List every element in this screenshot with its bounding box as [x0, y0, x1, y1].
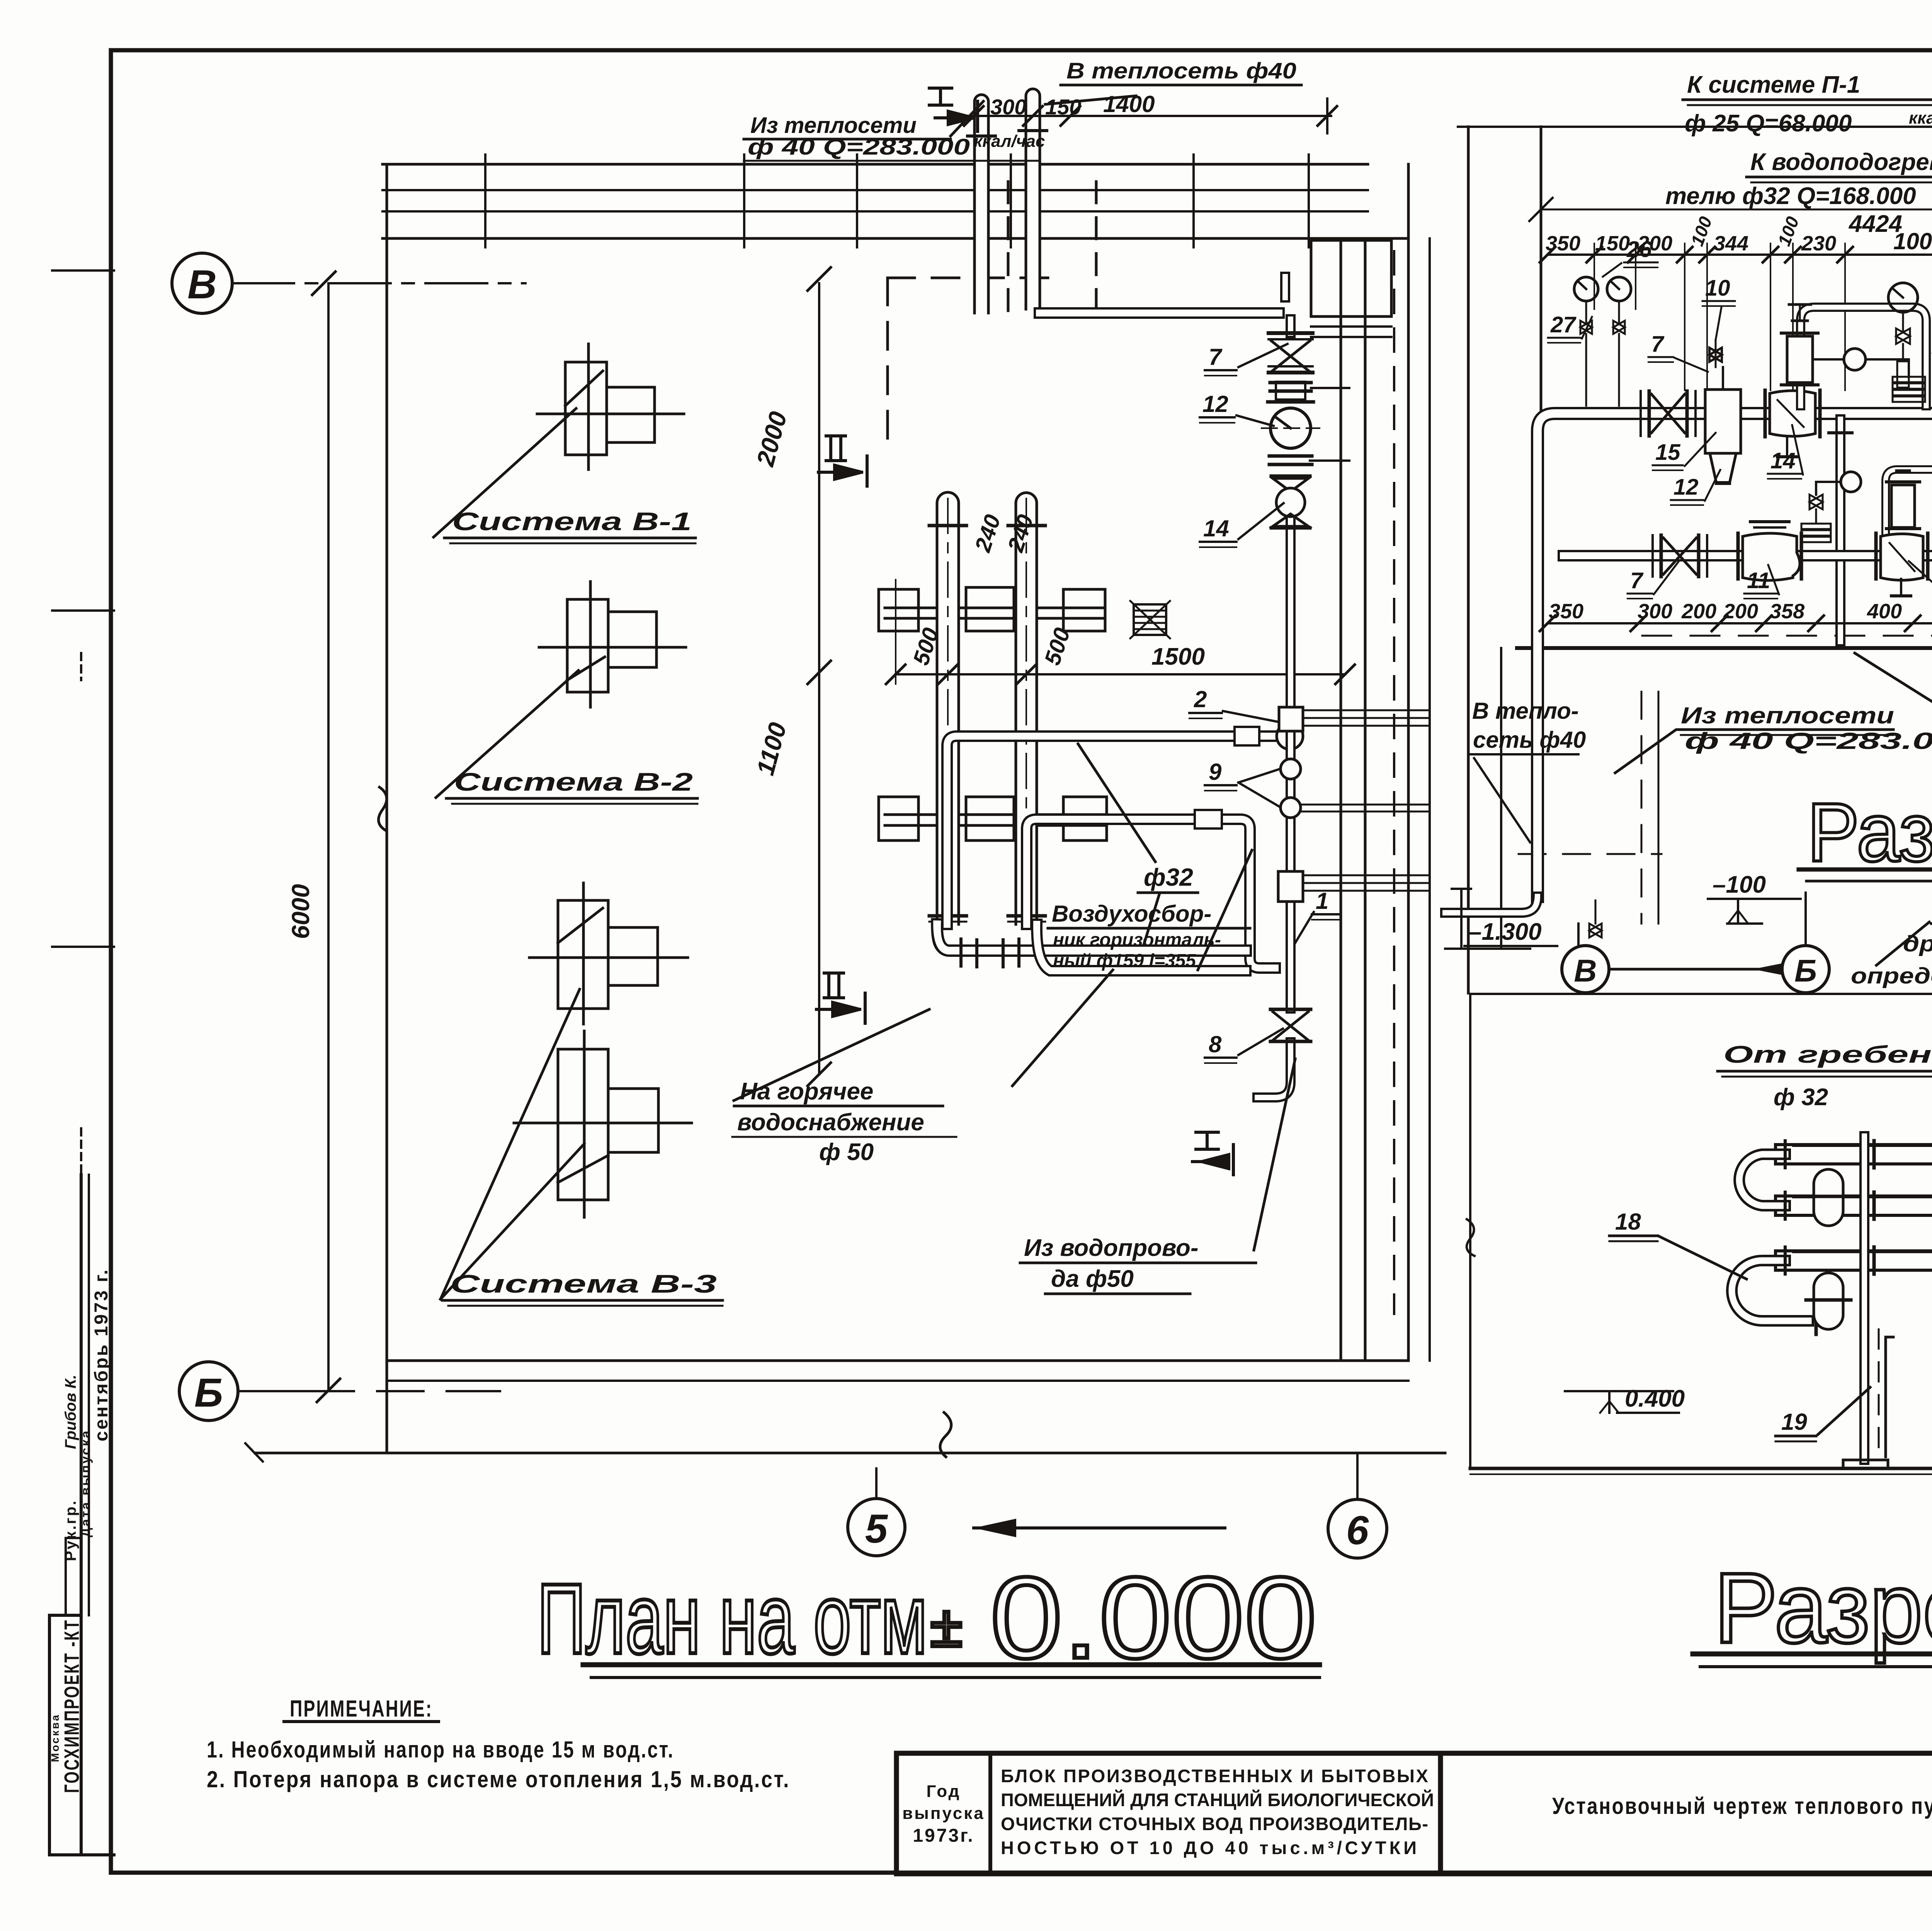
cross 13: [1876, 533, 1928, 596]
svg-text:15: 15: [1655, 440, 1680, 465]
svg-text:2000: 2000: [751, 408, 793, 469]
svg-text:ф32: ф32: [1144, 863, 1193, 891]
boundary top line: [1470, 993, 1932, 995]
svg-text:Из теплосети: Из теплосети: [1681, 703, 1894, 728]
label 18: [1615, 1209, 1641, 1235]
svg-text:12: 12: [1673, 475, 1699, 500]
view direction arrow: [974, 1526, 1225, 1529]
title block divider description: [1438, 1753, 1443, 1874]
plan top wall line 3: [383, 210, 1368, 213]
section outer left boundary: [1467, 127, 1470, 993]
svg-text:телю ф32 Q=168.000: телю ф32 Q=168.000: [1665, 183, 1916, 209]
svg-text:Грибов К.: Грибов К.: [62, 1375, 79, 1449]
svg-text:ник горизонталь-: ник горизонталь-: [1053, 930, 1221, 950]
svg-text:дренажа трубопровода: дренажа трубопровода: [1903, 931, 1932, 956]
main upper pipe: [1537, 413, 1932, 897]
center riser 2: [1016, 493, 1037, 924]
svg-text:5: 5: [865, 1506, 888, 1552]
basement wall: [1500, 648, 1502, 947]
svg-text:150: 150: [1595, 232, 1630, 255]
section callout labels left: [1550, 237, 1932, 627]
level -100: [1713, 871, 1766, 898]
dashed room boundary left: [886, 278, 889, 448]
title block outline: [896, 1753, 1932, 1874]
dashed line near risers 1: [1007, 182, 1010, 325]
fitting 2 coupling: [1279, 707, 1430, 731]
svg-text:7: 7: [1651, 332, 1665, 357]
feed pipe from risers: [1039, 307, 1279, 319]
svg-text:100: 100: [1687, 214, 1716, 248]
corridor wall left: [1340, 240, 1342, 1361]
svg-text:26: 26: [1626, 237, 1652, 262]
svg-text:В теплосеть ф40: В теплосеть ф40: [1066, 58, 1296, 83]
bottom grid circle 5: [848, 1454, 1387, 1558]
svg-text:ПОМЕЩЕНИЙ ДЛЯ СТАНЦИЙ БИОЛОГИЧ: ПОМЕЩЕНИЙ ДЛЯ СТАНЦИЙ БИОЛОГИЧЕСКОЙ: [1001, 1790, 1435, 1810]
vertical dim 2000/1100 line: [818, 283, 820, 1074]
P1 end circle fitting: [1277, 723, 1303, 749]
dirt trap 15: [1705, 367, 1741, 483]
tube row 2: [1785, 1194, 1932, 1217]
svg-text:ф 25 Q=68.000: ф 25 Q=68.000: [1685, 110, 1852, 137]
flange ticks rows: [1864, 1141, 1867, 1168]
grid axis line B bottom: [238, 1390, 500, 1392]
svg-text:1100: 1100: [751, 720, 792, 778]
svg-text:1: 1: [1316, 888, 1328, 914]
svg-text:200: 200: [1681, 600, 1716, 623]
svg-text:На горячее: На горячее: [740, 1078, 873, 1105]
svg-text:1400: 1400: [1103, 91, 1155, 117]
svg-text:344: 344: [1714, 232, 1748, 255]
svg-text:В: В: [187, 262, 217, 307]
top dim line 300/150/1400: [954, 115, 1331, 117]
teploset pipes below floor: [1445, 897, 1602, 937]
valve 8 (plan): [1270, 1009, 1311, 1041]
svg-text:18: 18: [1615, 1209, 1641, 1235]
column rect top right: [1311, 240, 1391, 316]
svg-text:сеть ф40: сеть ф40: [1473, 727, 1586, 753]
svg-text:ф 50: ф 50: [819, 1139, 874, 1165]
bottom line left tick: [245, 1443, 263, 1461]
svg-text:сентябрь 1973 г.: сентябрь 1973 г.: [91, 1268, 112, 1441]
svg-text:11: 11: [1747, 568, 1770, 593]
side stub at 1000: [1311, 387, 1349, 389]
svg-text:БЛОК ПРОИЗВОДСТВЕННЫХ И БЫТОВЫ: БЛОК ПРОИЗВОДСТВЕННЫХ И БЫТОВЫХ: [1001, 1766, 1430, 1786]
svg-text:–1.300: –1.300: [1468, 919, 1542, 945]
label system V-2: [454, 767, 693, 796]
svg-text:230: 230: [1801, 232, 1836, 255]
plan top wall line 1: [383, 163, 1368, 166]
svg-text:Б: Б: [194, 1370, 223, 1415]
svg-text:да ф50: да ф50: [1051, 1266, 1134, 1292]
svg-text:Москва: Москва: [49, 1713, 61, 1762]
title block divider year: [988, 1753, 992, 1874]
fitting 1 coupling: [1278, 871, 1430, 902]
corridor wall right: [1364, 240, 1367, 1361]
vertical dim 6000 line: [327, 283, 330, 1390]
fitting 9 circles: [1281, 759, 1430, 818]
svg-text:12: 12: [1202, 391, 1228, 417]
system V-3b plan symbol: [514, 1031, 692, 1217]
dashed room boundary top: [888, 277, 1053, 279]
svg-text:Б: Б: [1794, 953, 1817, 988]
plan bottom wall line 2: [387, 1380, 1408, 1382]
svg-text:Система В-3: Система В-3: [450, 1269, 717, 1298]
big title: plan: [537, 1553, 1320, 1683]
dim labels upper: [1546, 214, 1932, 255]
plan right wall: [1407, 164, 1410, 1361]
svg-text:350: 350: [1546, 232, 1580, 255]
P1 coupling: [1235, 727, 1259, 745]
break mark left: [1467, 1219, 1475, 1256]
svg-text:8: 8: [1209, 1031, 1222, 1057]
level -1300: [1468, 919, 1542, 945]
wall tick 4: [1192, 155, 1195, 247]
svg-text:400: 400: [1867, 600, 1902, 623]
label 19: [1781, 1409, 1807, 1435]
svg-text:1973г.: 1973г.: [913, 1826, 974, 1846]
main vertical pipe runs: [1286, 319, 1296, 333]
support posts: [1843, 1136, 1932, 1468]
wall bracket left upper: [879, 587, 1107, 840]
gauge 12 (plan): [1262, 408, 1320, 448]
svg-text:От гребенки: От гребенки: [1723, 1041, 1932, 1068]
dashed line above floor: [1642, 635, 1932, 637]
system V-3a plan symbol: [529, 883, 688, 1024]
svg-text:ф 32: ф 32: [1774, 1084, 1828, 1111]
svg-text:27: 27: [1550, 312, 1577, 337]
wall tick 6: [484, 155, 486, 247]
valve 7 (plan): [1269, 333, 1313, 373]
upper loop circuit: [1781, 305, 1926, 406]
notes block: [207, 1696, 790, 1792]
svg-text:–100: –100: [1713, 871, 1766, 898]
plan top wall line 2: [383, 189, 1368, 191]
inlet valve on main: [1641, 391, 1696, 436]
svg-text:Разрез: Разрез: [1807, 786, 1932, 879]
tube row 3: [1785, 1249, 1932, 1272]
svg-text:Дата выпуска: Дата выпуска: [78, 1429, 93, 1537]
wall tick 2: [856, 155, 858, 247]
label v teploset (section): [1472, 698, 1586, 753]
lower pipe run: [1563, 550, 1932, 561]
svg-text:ПРИМЕЧАНИЕ:: ПРИМЕЧАНИЕ:: [290, 1696, 433, 1722]
svg-text:К системе П-1: К системе П-1: [1687, 71, 1860, 98]
drain valve below: [1595, 900, 1597, 924]
svg-text:1500: 1500: [1151, 643, 1205, 670]
label iz teploseti: [748, 113, 1045, 160]
dim ticks: [1540, 247, 1555, 262]
label iz teploseti (section): [1681, 703, 1932, 754]
section mark II bottom: [816, 973, 865, 1023]
label iz vodoprovoda (plan): [1024, 1235, 1198, 1292]
weight stack: [1908, 359, 1910, 377]
valve 7 lower: [1653, 535, 1707, 577]
level mark 0.400: [1625, 1385, 1685, 1412]
gauge 26 center: [1888, 283, 1918, 388]
svg-text:14: 14: [1770, 448, 1796, 473]
hatched drain square: [1130, 601, 1170, 638]
callout 9 plan: [1209, 759, 1222, 785]
upper dimension chain: [1540, 243, 1932, 648]
stamp table lines: [48, 1615, 51, 1855]
bottom line break mark: [940, 1412, 951, 1457]
svg-text:4424: 4424: [1848, 211, 1902, 237]
lower dimension chain: [1540, 616, 1932, 631]
svg-text:ккал/час: ккал/час: [974, 132, 1045, 151]
svg-text:Установочный чертеж теплового: Установочный чертеж теплового пункта: [1552, 1793, 1932, 1819]
leader v teploset: [1045, 96, 1136, 104]
grid circle B top: [172, 253, 831, 1421]
svg-text:9: 9: [1209, 759, 1222, 785]
bottom grid circle 6: [1328, 1499, 1387, 1558]
section mark I bottom: [1192, 1132, 1233, 1175]
svg-text:2. Потеря напора в системе ото: 2. Потеря напора в системе отопления 1,5…: [207, 1766, 790, 1792]
drop leg to floor: [1829, 419, 1852, 641]
label ot grebenki: [1723, 1041, 1932, 1111]
svg-text:Система В-2: Система В-2: [454, 767, 693, 796]
svg-text:10: 10: [1705, 276, 1730, 301]
section mark II top: [818, 436, 867, 486]
regulator on loop: [1787, 336, 1813, 383]
svg-text:В: В: [1574, 953, 1597, 988]
plan center risers pair: [929, 492, 1045, 927]
tube row 1: [1785, 1143, 1932, 1165]
corridor dashed axis: [1393, 251, 1395, 1314]
svg-text:Воздухосбор-: Воздухосбор-: [1052, 901, 1211, 927]
svg-text:Из водопрово-: Из водопрово-: [1024, 1235, 1198, 1261]
svg-text:ф 40 Q=283.000: ф 40 Q=283.000: [1685, 728, 1932, 754]
svg-text:350: 350: [1549, 600, 1583, 623]
leader iz teploseti: [951, 101, 983, 136]
big title: section I-I (middle right): [1799, 786, 1932, 881]
svg-text:1. Необходимый напор на вводе: 1. Необходимый напор на вводе 15 м вод.с…: [207, 1737, 674, 1763]
callout 12 plan: [1202, 391, 1228, 417]
svg-text:7: 7: [1209, 344, 1223, 370]
air collector bottom pipes: [937, 924, 1246, 971]
left small gauges pair: [1574, 277, 1631, 406]
svg-text:14: 14: [1203, 516, 1229, 541]
callout 2 plan: [1194, 686, 1207, 712]
label system V-3: [450, 1269, 717, 1298]
svg-text:240: 240: [970, 512, 1005, 555]
center riser 1: [937, 492, 959, 924]
svg-text:0.400: 0.400: [1625, 1385, 1685, 1412]
valve 14 (plan, back pressure): [1271, 476, 1310, 528]
section line B-B circles: [1562, 893, 1829, 993]
leader V-1: [434, 408, 576, 537]
fold mark ticks: [52, 269, 114, 272]
callout 14 plan: [1203, 516, 1229, 541]
flanges below gauge: [1269, 456, 1349, 464]
P2 coupling: [1195, 810, 1222, 829]
svg-text:ГОСХИМПРОЕКТ -КТ: ГОСХИМПРОЕКТ -КТ: [60, 1619, 83, 1793]
cross fitting 14: [1765, 390, 1820, 457]
top pipe labels: [1665, 71, 1932, 291]
plan left wall: [386, 164, 388, 1453]
riser pipe 1 (iz teploseti): [975, 95, 988, 313]
svg-text:6000: 6000: [287, 884, 315, 939]
grid axis line B: [232, 282, 526, 284]
lower loop circuit: [1801, 470, 1932, 556]
svg-text:Год: Год: [927, 1782, 961, 1801]
svg-text:Система В-1: Система В-1: [452, 507, 692, 536]
system V-1 plan symbol: [537, 344, 684, 470]
riser pipe 2 (v teploset): [1026, 89, 1040, 309]
dim 240 240 labels: [908, 512, 1205, 670]
impulse line + ball: [1813, 358, 1909, 361]
tee 11: [1738, 522, 1801, 580]
wall bracket left lower: [879, 797, 918, 840]
plan bottom outer line: [255, 1452, 1445, 1455]
flange stack below valve7: [1268, 382, 1349, 402]
grid circle B bottom: [179, 1362, 238, 1421]
wall tick 3: [1010, 155, 1012, 247]
svg-text:К водоподогрева-: К водоподогрева-: [1750, 149, 1932, 175]
label na goryachee (plan): [737, 1078, 924, 1165]
svg-text:2: 2: [1194, 686, 1207, 712]
dim line 1500: [886, 580, 1355, 684]
section beam line: [1458, 126, 1932, 128]
system V-2 plan symbol: [539, 582, 686, 707]
svg-text:100: 100: [1774, 214, 1803, 248]
wall tick 1: [743, 155, 745, 247]
label v teploset: [1066, 58, 1296, 83]
section floor line: [1517, 646, 1932, 650]
riser center dashline: [947, 498, 949, 927]
plan main vertical pipeline: [1039, 277, 1291, 1097]
wall break mark: [379, 787, 387, 831]
svg-text:В тепло-: В тепло-: [1472, 698, 1579, 724]
label vozduhosbornik: [1052, 901, 1221, 971]
leader V-2: [436, 670, 578, 798]
inlet pipe from wall lower: [1563, 413, 1596, 556]
svg-text:водоснабжение: водоснабжение: [737, 1109, 924, 1136]
wall tick 5: [1308, 155, 1310, 247]
air vent capsules: [1806, 1169, 1932, 1368]
plan top wall inner line: [383, 237, 1408, 240]
svg-text:ккал/час: ккал/час: [1909, 109, 1932, 128]
svg-text:План на отм: План на отм: [537, 1563, 927, 1674]
section ceiling line: [1541, 209, 1932, 211]
column rect hatch lines: [1311, 325, 1391, 328]
svg-text:определяется при привязке: определяется при привязке: [1851, 963, 1932, 988]
svg-text:7: 7: [1630, 568, 1644, 593]
callout 7 plan: [1209, 344, 1223, 370]
svg-text:ный ф159 l=355: ный ф159 l=355: [1053, 951, 1196, 971]
svg-text:6: 6: [1346, 1508, 1369, 1553]
label system V-1: [452, 507, 692, 536]
heat-net risers at top of plan: [954, 89, 1337, 313]
svg-text:Рук.гр.: Рук.гр.: [62, 1499, 79, 1561]
svg-text:358: 358: [1770, 600, 1804, 623]
dashed line near risers 2: [1095, 182, 1098, 325]
necessity note: [1851, 897, 1932, 988]
plan bottom wall line 1: [387, 1359, 1408, 1362]
left U-bend top: [1739, 1154, 1785, 1206]
plan pipe P2: [1027, 810, 1275, 968]
svg-text:выпуска: выпуска: [902, 1804, 985, 1823]
svg-text:300: 300: [1638, 600, 1672, 623]
svg-text:НОСТЬЮ ОТ 10 ДО 40 тыс.м³/СУТК: НОСТЬЮ ОТ 10 ДО 40 тыс.м³/СУТКИ: [1001, 1837, 1418, 1858]
label f32: [1144, 863, 1193, 891]
svg-text:150: 150: [1045, 95, 1081, 119]
big title: section III-III (bottom right): [1693, 1552, 1932, 1667]
small valve 10: [1709, 340, 1722, 367]
svg-text:±: ±: [930, 1594, 962, 1659]
section left wall: [1540, 127, 1543, 636]
left U-bend bottom rows3-stub: [1732, 1261, 1808, 1321]
plan pipe P1 to main: [947, 723, 1303, 924]
svg-text:300: 300: [990, 95, 1026, 119]
svg-text:ОЧИСТКИ СТОЧНЫХ ВОД ПРОИЗВОДИТ: ОЧИСТКИ СТОЧНЫХ ВОД ПРОИЗВОДИТЕЛЬ-: [1001, 1814, 1430, 1834]
floor line bottom section: [1470, 1467, 1932, 1470]
callout 8 plan: [1209, 1031, 1222, 1057]
extension verticals: [1594, 243, 1595, 309]
left margin stamp: [49, 271, 114, 1855]
svg-text:200: 200: [1723, 600, 1758, 623]
svg-text:Разрез: Разрез: [1714, 1552, 1932, 1664]
elbow flange ticks: [959, 939, 963, 966]
svg-text:500: 500: [1040, 625, 1075, 668]
boundary left line: [1469, 994, 1471, 1468]
svg-text:19: 19: [1781, 1409, 1807, 1435]
callout 1 plan: [1316, 888, 1328, 914]
section mark I top: [929, 88, 978, 131]
leader V-3 x2: [440, 989, 580, 1299]
heat exchanger tube bank: [1732, 1141, 1932, 1334]
